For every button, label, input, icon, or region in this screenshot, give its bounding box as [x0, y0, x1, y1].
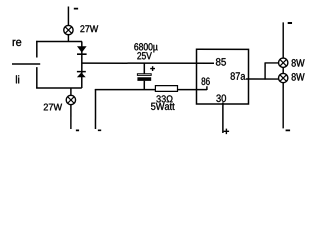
capacitor C1 polarity plus: [150, 66, 155, 71]
wire (capacitor C1 top lead): [143, 63, 145, 73]
wire (capacitor C1 bottom lead): [143, 81, 145, 90]
switch S1 wiper: [12, 63, 40, 65]
lamp LA4 8W (side indicator): [279, 73, 288, 82]
wire (lamp LA2 top lead): [70, 88, 72, 95]
wire (ground rail drop): [94, 89, 96, 129]
pin 85 label: [216, 58, 226, 66]
diode D1 (re OR diode, cathode down): [77, 46, 87, 55]
label 8W (LA4): [292, 73, 305, 81]
wire (pin 30 lead): [222, 102, 224, 133]
wire (branch tee vertical): [264, 63, 266, 80]
wire (right chain top lead): [282, 22, 284, 58]
wire (between lamps LA3 and LA4): [282, 67, 284, 73]
pin 87a label: [231, 72, 246, 80]
label 27W (LA1): [80, 25, 98, 32]
label re: [13, 40, 22, 46]
pin 86 label: [202, 78, 210, 86]
wire (ground rail right of resistor R1 into relay pin 86): [177, 89, 206, 91]
wire (diode column): [81, 41, 83, 87]
label 25V (C1 rating): [137, 52, 151, 59]
label 8W (LA3): [292, 59, 305, 67]
lamp LA2 27W (li front indicator): [66, 95, 75, 104]
relay K1 (flasher unit): [196, 49, 248, 104]
wire (re line): [36, 40, 82, 42]
pin 30 label: [216, 95, 226, 103]
capacitor C1 negative plate: [137, 77, 151, 81]
switch S1 bottom contact: [36, 67, 38, 88]
resistor R1: [155, 86, 177, 92]
wire (ground rail left of resistor R1): [95, 89, 155, 91]
label 5Watt (R1 rating): [151, 103, 175, 110]
diode D2 (li OR diode, cathode up): [77, 71, 86, 77]
terminal minus (right chain bottom): [286, 129, 291, 131]
terminal plus (pin 30 supply): [224, 129, 230, 135]
lamp LA1 27W (re front indicator): [64, 25, 73, 34]
terminal minus (right chain top): [288, 22, 292, 24]
wire (pin 87a line to side lamps): [246, 78, 279, 80]
wire (top rail: diode junction to relay pin 85): [82, 62, 214, 64]
wire (lamp LA2 bottom lead): [70, 105, 72, 129]
label li: [16, 75, 19, 83]
wire (pin 86 stub): [206, 86, 208, 90]
terminal minus (ground rail): [98, 129, 101, 131]
wire (upper branch to lamp LA3): [265, 62, 279, 64]
switch S1 top contact: [36, 41, 38, 58]
terminal minus (below lamp LA2): [76, 129, 79, 131]
wire (li line): [36, 87, 82, 89]
capacitor C1 positive plate: [137, 74, 151, 76]
terminal minus (top left supply): [74, 8, 78, 10]
lamp LA3 8W (side indicator): [279, 58, 288, 67]
wire (lamp LA1 bottom lead): [67, 35, 69, 42]
label 6800µ (C1 value): [134, 43, 157, 52]
label 33Ω (R1 value): [156, 95, 172, 102]
wire (lamp LA1 top lead): [67, 6, 69, 25]
label 27W (LA2): [44, 104, 62, 111]
wire (right chain bottom lead): [282, 83, 284, 129]
